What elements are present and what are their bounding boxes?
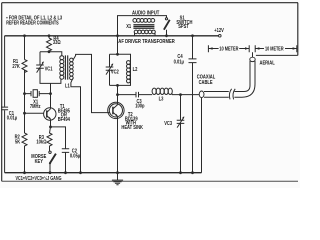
inductor L3: [152, 88, 172, 102]
svg-text:REFER READER COMMENTS: REFER READER COMMENTS: [6, 21, 59, 27]
svg-text:L3: L3: [159, 97, 164, 103]
node audio loop left: [116, 34, 119, 37]
figure border bottom: [2, 180, 298, 182]
node C2 ground: [64, 171, 67, 174]
svg-text:10 METER: 10 METER: [219, 46, 238, 52]
wire R1 to R2 / base column: [24, 94, 26, 133]
wire VC2/L2 tank box: [110, 54, 131, 85]
svg-text:SPST: SPST: [178, 24, 189, 30]
svg-text:VC1: VC1: [45, 67, 53, 73]
svg-text:VC3: VC3: [164, 121, 172, 127]
node C4 top: [191, 34, 194, 37]
aerial: [250, 52, 275, 66]
resistor R1: [12, 36, 27, 94]
figure border notch line: [256, 54, 298, 56]
svg-text:VC1=VC2=VC3=½J GANG: VC1=VC2=VC3=½J GANG: [16, 175, 62, 182]
svg-text:AUDIO INPUT: AUDIO INPUT: [132, 11, 160, 17]
node T2 collector: [116, 93, 119, 96]
wire left rail: [4, 36, 6, 173]
figure border top: [2, 2, 298, 4]
svg-text:L1: L1: [65, 83, 70, 89]
node VC2 box bottom: [116, 84, 119, 87]
variable capacitor VC2: [106, 63, 119, 75]
node base junction: [23, 112, 26, 115]
node S1 bottom: [165, 34, 168, 37]
capacitor C3: [118, 92, 153, 109]
dimension 10 meter right: [255, 45, 297, 52]
resistor R4: [47, 36, 61, 52]
terminal +12V: [214, 28, 224, 37]
svg-text:L2: L2: [133, 67, 138, 73]
node R4 top: [48, 34, 51, 37]
transistor T2: [108, 95, 144, 173]
svg-text:KEY: KEY: [35, 159, 44, 165]
svg-text:+12V: +12V: [214, 28, 224, 34]
wire L3 to coax: [172, 94, 199, 96]
svg-text:0.01µ: 0.01µ: [7, 116, 17, 122]
switch S1: [164, 16, 193, 36]
node VC3 ground: [179, 171, 182, 174]
variable capacitor VC3: [164, 95, 184, 173]
dimension 10 meter left: [208, 45, 249, 52]
node T2 emitter ground: [116, 171, 119, 174]
svg-text:X1: X1: [126, 24, 131, 30]
svg-text:27K: 27K: [12, 64, 20, 70]
node crystal-collector junction: [49, 92, 52, 95]
svg-text:AF DRIVER TRANSFORMER: AF DRIVER TRANSFORMER: [118, 39, 175, 45]
inductor L2: [126, 61, 137, 83]
svg-text:5K: 5K: [15, 139, 20, 145]
inductor L1 (transformer): [60, 55, 73, 89]
wire L1 secondary bottom to ground: [71, 78, 81, 172]
capacitor C1: [1, 107, 17, 122]
resistor R2: [15, 133, 27, 173]
node key ground: [49, 171, 52, 174]
capacitor C4: [174, 36, 197, 173]
variable capacitor VC1: [36, 61, 52, 72]
svg-text:7MHz: 7MHz: [30, 104, 41, 110]
coaxial cable: [197, 61, 255, 173]
svg-text:BF494: BF494: [58, 117, 70, 123]
svg-text:0.01µ: 0.01µ: [174, 60, 184, 66]
wire bottom rail: [5, 172, 202, 174]
figure border left: [1, 3, 3, 182]
wire VC1 box to crystal node: [50, 83, 52, 93]
node L1 secondary ground: [79, 171, 82, 174]
node C4 ground: [191, 171, 194, 174]
svg-text:AERIAL: AERIAL: [260, 61, 275, 67]
transistor T1: [44, 94, 70, 127]
transformer X1 AF driver: [126, 19, 155, 36]
audio input loop: [118, 16, 167, 36]
svg-text:VC2: VC2: [111, 69, 119, 75]
resistor R3: [36, 127, 52, 151]
node VC3 top: [179, 93, 182, 96]
svg-text:0.05µ: 0.05µ: [70, 153, 80, 159]
wire VC1 tank box: [40, 52, 62, 84]
capacitor C2: [62, 148, 80, 172]
node R4 bottom: [48, 50, 51, 53]
ground: [112, 173, 123, 185]
wire L1 secondary top to T2 base: [73, 54, 108, 112]
wire box bottom to collector node: [117, 85, 119, 94]
morse key S: [31, 151, 56, 173]
figure border right segment: [297, 3, 299, 56]
node VC2 box top: [116, 53, 119, 56]
svg-text:10kΩ: 10kΩ: [36, 139, 46, 145]
node R1 top: [23, 34, 26, 37]
node R2 bottom: [23, 171, 26, 174]
crystal X1: [25, 90, 51, 111]
svg-text:33Ω: 33Ω: [53, 40, 61, 46]
svg-text:HEAT SINK: HEAT SINK: [121, 125, 143, 131]
wire top rail: [5, 35, 219, 37]
wire emitter to C2: [51, 127, 66, 149]
node crystal-R1 junction: [23, 92, 26, 95]
svg-text:10 METER: 10 METER: [265, 46, 284, 52]
wire VC2 feed: [117, 36, 119, 55]
svg-text:CABLE: CABLE: [199, 80, 213, 86]
wire T1 base: [25, 112, 44, 114]
svg-text:100p: 100p: [135, 103, 144, 109]
node T1 emitter junction: [49, 126, 52, 129]
